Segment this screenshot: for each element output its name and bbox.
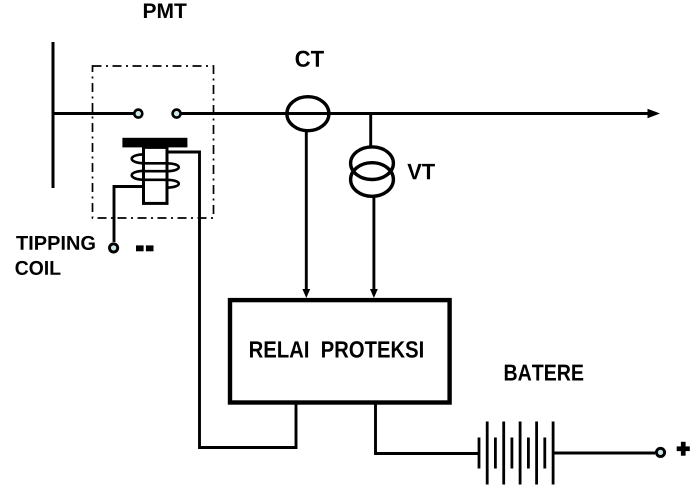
busbar xyxy=(52,42,55,188)
label VT xyxy=(407,164,435,179)
PMT contact bridge bar xyxy=(122,138,187,148)
trip coil winding (right loops) xyxy=(166,163,179,187)
relay box U1 xyxy=(230,300,450,402)
label CT xyxy=(296,51,324,67)
PMT contact left xyxy=(134,110,142,118)
label + xyxy=(677,442,690,456)
polarity dashes xyxy=(136,245,154,251)
wire battery to positive terminal xyxy=(553,452,655,455)
CT ellipse xyxy=(287,97,329,131)
PMT contact right xyxy=(173,110,181,118)
battery positive terminal xyxy=(656,448,664,456)
wire VT to relay xyxy=(372,196,375,291)
label PMT xyxy=(144,4,187,18)
arrowhead VT wire xyxy=(370,289,378,298)
label BATERE xyxy=(505,365,583,381)
arrowhead CT wire xyxy=(302,289,310,298)
battery BATERE xyxy=(479,422,553,485)
wire relay to battery xyxy=(376,403,479,454)
breaker PMT enclosure (dash-dot box) xyxy=(93,66,214,218)
label RELAI PROTEKSI xyxy=(250,341,423,358)
VT transformer xyxy=(351,147,394,196)
wire CT to relay xyxy=(305,131,308,292)
wire busbar to PMT left contact xyxy=(53,112,134,115)
wire trip circuit (coil exit right, down, across, up to relay) xyxy=(167,152,296,448)
wire coil to tipping coil terminal xyxy=(114,187,167,243)
trip coil core xyxy=(144,147,168,203)
label TIPPING COIL xyxy=(16,236,95,275)
trip coil winding (left loops) xyxy=(132,154,145,180)
trip coil winding crossings xyxy=(144,163,168,180)
wire main line (PMT right contact to arrow) xyxy=(181,112,649,115)
tipping coil terminal xyxy=(110,244,118,252)
wire junction to VT xyxy=(369,114,372,149)
arrowhead main line xyxy=(648,109,661,119)
